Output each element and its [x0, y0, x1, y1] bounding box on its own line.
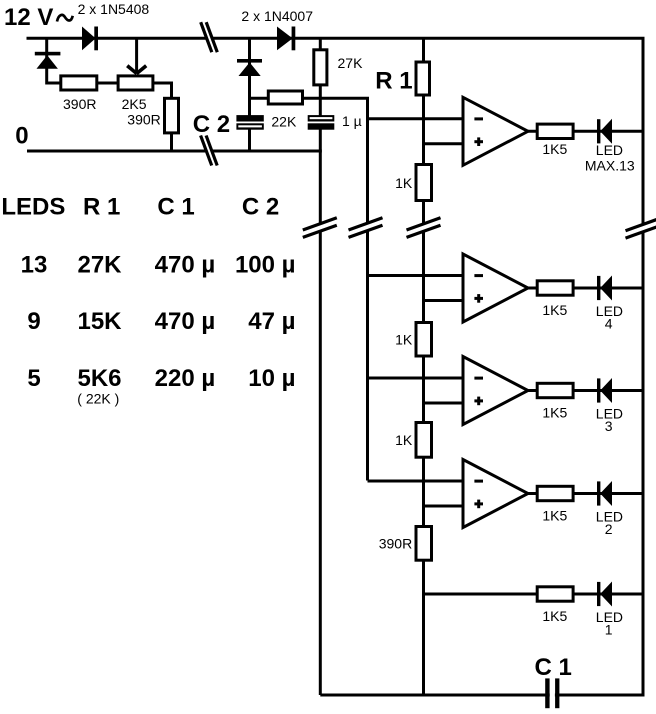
svg-text:5K6: 5K6: [77, 365, 121, 392]
svg-text:1K5: 1K5: [542, 405, 567, 421]
svg-text:390R: 390R: [379, 536, 412, 552]
svg-text:1K5: 1K5: [542, 302, 567, 318]
svg-text:5: 5: [27, 365, 40, 392]
svg-text:1K5: 1K5: [542, 608, 567, 624]
svg-text:12 V: 12 V: [4, 4, 53, 31]
svg-text:C 1: C 1: [157, 194, 194, 221]
svg-text:LEDS: LEDS: [1, 194, 65, 221]
svg-text:2 x 1N5408: 2 x 1N5408: [78, 1, 150, 17]
svg-text:( 22K ): ( 22K ): [77, 390, 119, 406]
svg-text:MAX.13: MAX.13: [585, 157, 635, 173]
svg-text:22K: 22K: [271, 114, 297, 130]
svg-text:2: 2: [605, 521, 613, 537]
svg-text:C 2: C 2: [242, 194, 279, 221]
svg-text:1: 1: [605, 622, 613, 638]
svg-text:390R: 390R: [127, 112, 160, 128]
svg-text:2 x 1N4007: 2 x 1N4007: [241, 8, 313, 24]
svg-text:13: 13: [21, 251, 48, 278]
svg-text:470 µ: 470 µ: [155, 251, 216, 278]
svg-text:C 2: C 2: [193, 111, 230, 138]
svg-text:1K: 1K: [395, 175, 413, 191]
svg-text:1K5: 1K5: [542, 508, 567, 524]
svg-text:100 µ: 100 µ: [235, 251, 296, 278]
svg-text:1 µ: 1 µ: [342, 113, 362, 129]
svg-text:R 1: R 1: [375, 68, 412, 95]
svg-text:390R: 390R: [63, 96, 96, 112]
svg-text:27K: 27K: [338, 55, 364, 71]
svg-text:15K: 15K: [77, 308, 122, 335]
svg-text:220 µ: 220 µ: [155, 365, 216, 392]
svg-text:C 1: C 1: [535, 654, 572, 681]
svg-text:10 µ: 10 µ: [248, 365, 295, 392]
svg-text:1K: 1K: [395, 432, 413, 448]
svg-text:27K: 27K: [77, 251, 122, 278]
svg-text:470 µ: 470 µ: [155, 308, 216, 335]
svg-text:3: 3: [605, 418, 613, 434]
svg-text:4: 4: [605, 316, 613, 332]
svg-text:0: 0: [15, 122, 28, 149]
svg-text:9: 9: [27, 308, 40, 335]
svg-text:LED: LED: [596, 142, 623, 158]
svg-text:1K: 1K: [395, 332, 413, 348]
svg-text:1K5: 1K5: [542, 141, 567, 157]
svg-text:2K5: 2K5: [122, 96, 147, 112]
svg-text:47 µ: 47 µ: [248, 308, 295, 335]
svg-text:R 1: R 1: [83, 194, 120, 221]
